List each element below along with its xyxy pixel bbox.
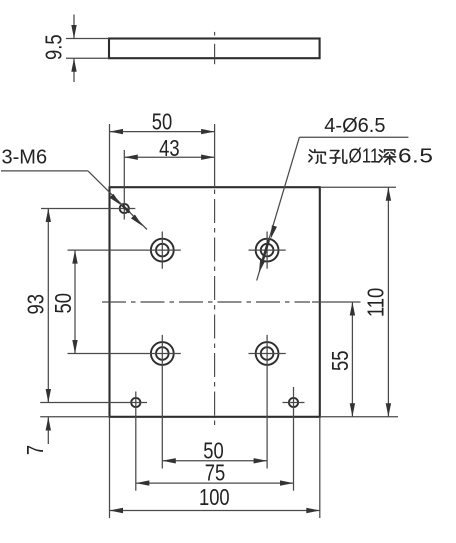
svg-text:100: 100 (199, 485, 230, 510)
svg-text:9.5: 9.5 (42, 34, 67, 60)
leader 4-Ø6.5 diagonal (257, 137, 300, 280)
dimension text 110 (364, 288, 389, 317)
side view vertical centerline (214, 32, 216, 64)
dimension text 43 (159, 136, 179, 161)
leader 4-Ø6.5 shoulder (299, 136, 408, 138)
dimension text 75 (205, 461, 225, 486)
svg-text:6.5: 6.5 (398, 144, 433, 166)
vertical centerline (214, 190, 216, 426)
M6 hole top-left (120, 204, 129, 213)
M6 hole bottom-left (131, 398, 140, 407)
counterbore hole bottom-left Ø6.5/Ø11 (151, 342, 174, 365)
dimension text 50 top (152, 109, 172, 134)
extension line centerline up (214, 124, 216, 187)
leader 3-M6 shoulder (1, 170, 88, 172)
leader note 4-Ø6.5 text (324, 115, 385, 137)
dimension text 93 (24, 294, 49, 314)
extension line bottom edge left (40, 416, 109, 418)
dimension 93 line (46, 209, 51, 403)
horizontal centerline (102, 301, 310, 303)
svg-text:4-Ø6.5: 4-Ø6.5 (324, 115, 385, 137)
crosshair counterbore top-left (68, 232, 181, 269)
dimension text 50 bottom (203, 439, 223, 464)
crosshair M6 bottom-right (283, 387, 305, 491)
extension line plate left edge up (109, 124, 111, 187)
svg-text:Ø11: Ø11 (349, 144, 380, 167)
dimension text 9.5 (42, 34, 67, 60)
crosshair counterbore bottom-right (249, 335, 286, 469)
crosshair M6 top-left (41, 150, 135, 220)
dimension 7 line and arrows (46, 417, 51, 444)
dimension 9.5 arrows and lines (71, 15, 76, 83)
dimension 100 line (110, 508, 320, 513)
svg-text:7: 7 (23, 445, 48, 455)
svg-text:50: 50 (51, 293, 76, 313)
leader note 沉孔Ø11深6.5 text (309, 144, 433, 167)
side view plate outline (109, 39, 320, 59)
dimension 110 line (386, 187, 391, 417)
crosshair counterbore bottom-left (68, 335, 181, 469)
crosshair counterbore top-right (249, 232, 286, 269)
dimension 50 left line (72, 250, 77, 353)
M6 hole bottom-right (289, 398, 298, 407)
extension line centerline right (312, 301, 361, 303)
main view plate outline (110, 187, 320, 417)
crosshair M6 bottom-left (40, 392, 147, 491)
counterbore hole top-right Ø6.5/Ø11 (256, 239, 279, 262)
side view extension lines for 9.5 (66, 39, 109, 59)
dimension text 55 (328, 351, 353, 371)
counterbore hole bottom-right Ø6.5/Ø11 (256, 342, 279, 365)
svg-text:3-M6: 3-M6 (2, 147, 48, 169)
dimension 43 line (124, 155, 214, 160)
svg-text:93: 93 (24, 294, 49, 314)
extension line plate left edge down (109, 417, 111, 518)
dimension 75 line (136, 480, 294, 485)
extension line bottom edge right (320, 416, 398, 418)
svg-text:75: 75 (205, 461, 225, 486)
dimension text 100 (199, 485, 230, 510)
dimension 50 top line (110, 129, 215, 134)
svg-text:50: 50 (152, 109, 172, 134)
svg-text:43: 43 (159, 136, 179, 161)
dimension 55 line (350, 302, 355, 417)
dimension 50 bottom line (162, 458, 267, 463)
svg-text:55: 55 (328, 351, 353, 371)
dimension text 7 (23, 445, 48, 455)
dimension text 50 left (51, 293, 76, 313)
svg-text:110: 110 (364, 288, 389, 317)
leader note 3-M6 text (2, 147, 48, 169)
counterbore hole top-left Ø6.5/Ø11 (151, 239, 174, 262)
leader 3-M6 diagonal (88, 171, 147, 230)
extension line plate right edge down (319, 417, 321, 518)
extension line top edge right (320, 186, 396, 188)
